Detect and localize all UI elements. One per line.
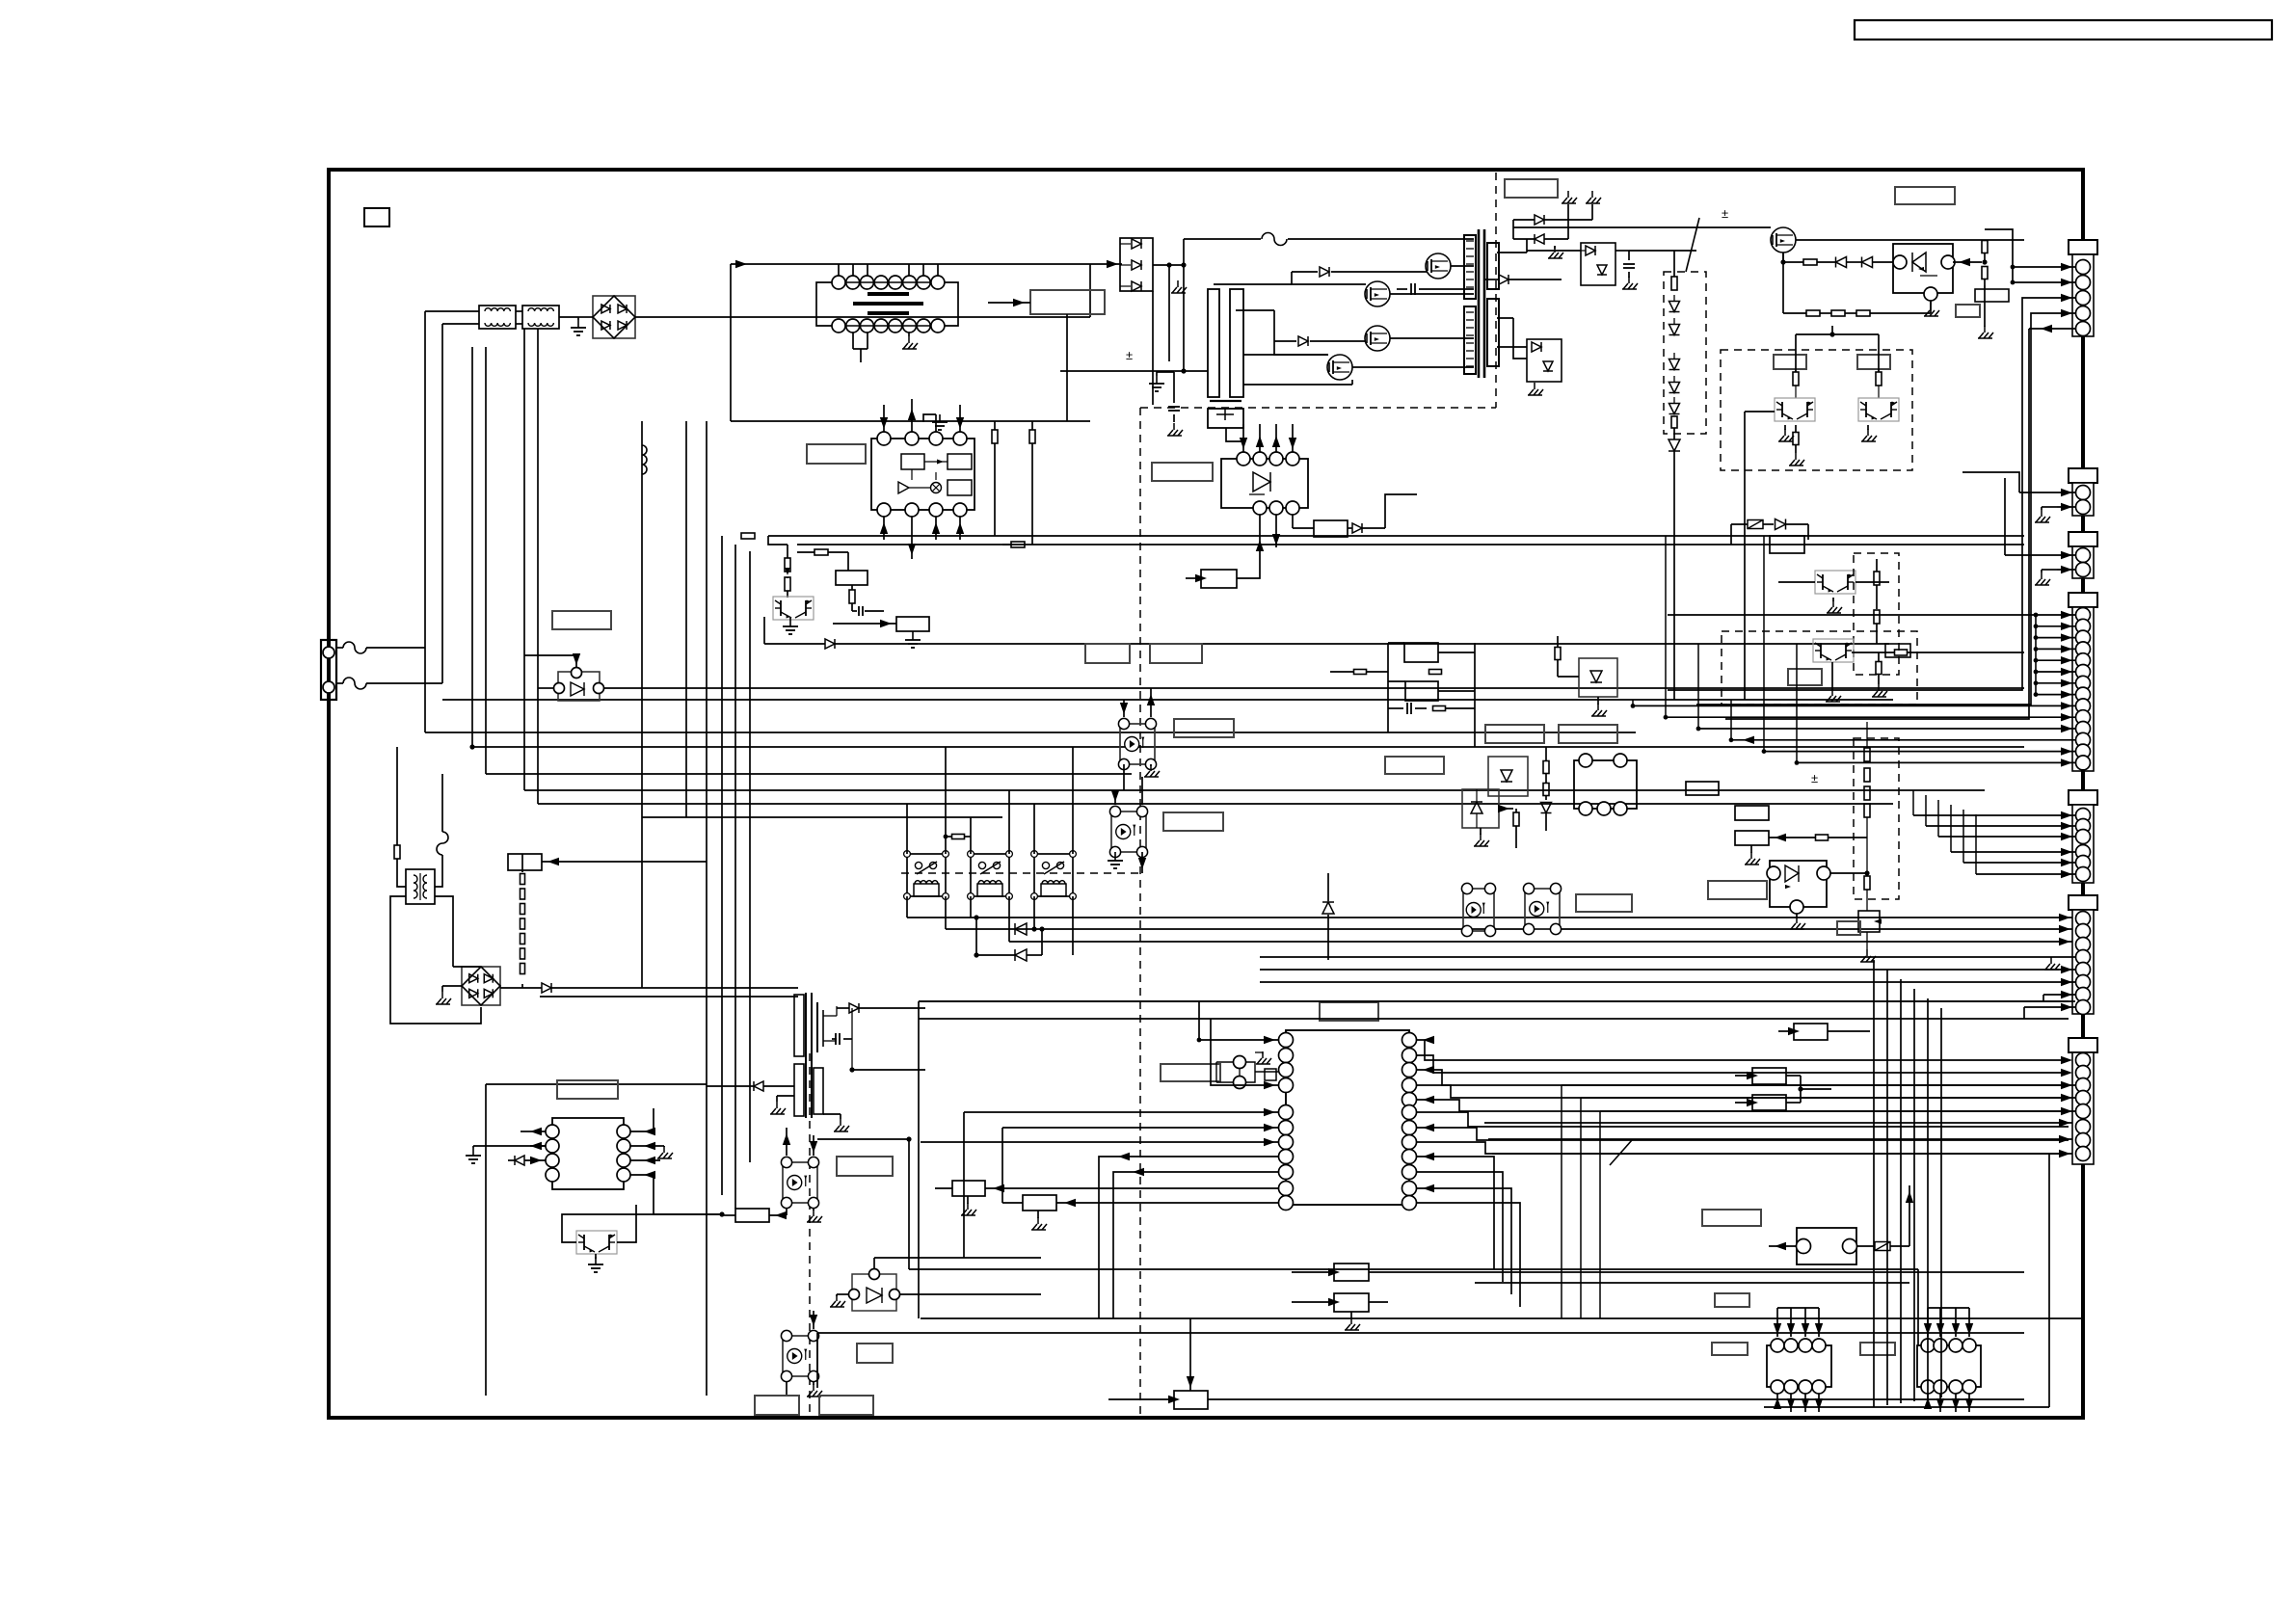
resistor R213	[1543, 761, 1549, 774]
fuse F1003	[1184, 238, 1261, 240]
capacitor C1005	[858, 606, 860, 616]
pot VR201	[1858, 911, 1880, 932]
IC IC1001 (photocoupler)	[1221, 459, 1308, 508]
transformer T1004 (gate drive)	[1208, 289, 1219, 397]
ground	[840, 1119, 841, 1126]
wire	[1513, 318, 1527, 359]
ground	[1114, 853, 1116, 861]
IC RMT602	[1917, 1345, 1981, 1387]
photocoupler PC201	[1463, 889, 1494, 931]
wire	[918, 1001, 920, 1318]
wire	[1260, 956, 2075, 958]
resistor R216	[1874, 572, 1880, 585]
diode D1007	[1535, 215, 1544, 225]
zener box D103	[1462, 789, 1499, 828]
wire	[425, 310, 479, 312]
wire	[813, 1311, 814, 1329]
diode D1008	[1535, 234, 1544, 244]
wire	[1259, 515, 1261, 564]
connector CN607	[2069, 1038, 2097, 1052]
ground	[908, 336, 910, 343]
ground	[1480, 834, 1482, 840]
wire	[852, 333, 854, 349]
wire	[1211, 1019, 1278, 1085]
label box	[807, 444, 866, 464]
wire	[1629, 226, 1771, 228]
jumper slash	[1686, 218, 1699, 272]
diode D1017	[754, 1081, 763, 1091]
diode D622	[1015, 949, 1027, 961]
ground	[1177, 280, 1179, 287]
label box	[1320, 1002, 1378, 1021]
resistor R1013	[785, 558, 790, 572]
transistor Q1001 (MOSFET)	[1426, 253, 1451, 279]
ground	[1930, 304, 1932, 310]
diode D204	[1862, 257, 1873, 268]
ground	[776, 1102, 778, 1108]
resistor ladder (dashed)	[1854, 738, 1899, 899]
wire	[1451, 265, 1474, 267]
box	[1314, 520, 1348, 537]
label box	[1385, 757, 1444, 774]
isolation boundary (dashed)	[1139, 408, 1141, 1415]
ground	[1554, 246, 1556, 253]
wire	[2024, 1006, 2075, 1008]
wire	[635, 316, 1090, 318]
bridge rectifier D1001	[593, 296, 635, 338]
resistor row R205	[1831, 310, 1845, 316]
ground	[663, 1146, 665, 1153]
box	[1752, 1068, 1786, 1084]
diode D206	[1669, 439, 1680, 451]
wire	[1242, 424, 1244, 452]
wire	[970, 896, 972, 918]
zener box D210	[1579, 658, 1617, 697]
wire	[1123, 700, 1125, 717]
wire	[988, 302, 1030, 304]
label box	[1788, 669, 1822, 685]
dashed box	[1854, 553, 1899, 675]
photocoupler PC102	[1111, 811, 1146, 852]
wire	[1292, 424, 1294, 452]
wire	[900, 1293, 1041, 1295]
diode D104	[1322, 902, 1334, 914]
relay RY603	[1034, 854, 1073, 896]
ground	[1597, 704, 1599, 710]
thyristor D620	[852, 1274, 896, 1311]
wire	[1484, 1122, 2076, 1124]
resistor R1012	[1011, 542, 1025, 547]
resistor R203	[1982, 267, 1988, 279]
drawing frame	[329, 170, 2083, 1418]
transistor Q1006 (MOSFET sw)	[816, 1002, 818, 1052]
isolation boundary (dashed)	[901, 872, 1140, 874]
wire	[852, 1069, 925, 1071]
wire	[1745, 411, 1775, 412]
ground	[1866, 949, 1868, 956]
label box	[1161, 1064, 1220, 1081]
resistor R103	[1433, 706, 1446, 711]
box	[1201, 570, 1237, 588]
resistor R211	[1876, 662, 1882, 675]
wire	[1913, 814, 2075, 816]
ground	[1784, 429, 1786, 436]
rectifier block D1002-D1004	[1120, 238, 1153, 291]
label box	[1505, 179, 1558, 198]
IC IC1002 (PWM controller)	[871, 439, 974, 510]
box	[508, 854, 542, 870]
box	[1770, 536, 1804, 553]
ground	[789, 619, 791, 626]
isolation boundary (dashed)	[1140, 407, 1496, 409]
resistor R212	[1895, 650, 1908, 655]
wire	[1243, 354, 1328, 356]
label box	[755, 1396, 799, 1415]
triac RY1001	[558, 672, 600, 701]
wire	[1764, 1406, 2049, 1408]
box	[1752, 1095, 1786, 1110]
wire	[1873, 960, 1875, 1407]
wire	[768, 536, 788, 545]
ground	[2041, 572, 2042, 579]
label box	[1485, 725, 1544, 743]
resistor row R204	[1806, 310, 1820, 316]
wire	[964, 1111, 1279, 1113]
transistor Q607 (pair)	[576, 1231, 617, 1254]
wire	[906, 896, 908, 918]
transistor Q203 (pair)	[1858, 398, 1899, 421]
diode D1005	[1292, 271, 1318, 273]
label box	[1174, 719, 1234, 737]
resistor R1014	[785, 577, 790, 591]
wire	[1226, 428, 1243, 441]
diode D1011	[1499, 275, 1508, 284]
label box	[1702, 1210, 1761, 1226]
fuse F1004	[437, 832, 448, 855]
resistor R202	[1982, 241, 1988, 253]
ground	[2041, 510, 2042, 517]
motor M601	[1797, 1228, 1856, 1264]
wire	[486, 773, 1132, 775]
wire	[540, 996, 798, 998]
wire	[1830, 872, 1867, 874]
label box	[1150, 644, 1202, 663]
ground	[1628, 277, 1630, 283]
ground	[1156, 376, 1158, 384]
resistor R101	[1354, 670, 1367, 675]
wire	[817, 1332, 2024, 1334]
wire	[1790, 1394, 1792, 1412]
wire	[1512, 220, 1514, 239]
wire	[883, 517, 885, 540]
box	[1885, 644, 1910, 657]
line filter L1002b	[522, 306, 559, 329]
diode D1016	[849, 1003, 859, 1013]
ground	[1867, 429, 1869, 436]
label box	[1715, 1293, 1749, 1307]
resistor chain R1021-R1027	[521, 874, 525, 885]
label box	[1712, 1343, 1748, 1355]
wire	[599, 1213, 722, 1215]
wire	[1563, 250, 1581, 252]
diode D1015	[542, 983, 551, 993]
wire	[919, 1000, 2075, 1002]
box	[896, 617, 929, 631]
ground	[1173, 423, 1175, 430]
wire	[786, 1128, 788, 1156]
resistor R1005	[1292, 515, 1294, 528]
transistor Q202 (pair)	[1775, 398, 1815, 421]
ground	[1037, 1217, 1039, 1224]
choke transformer L1001	[832, 276, 845, 289]
sheet label box	[364, 208, 389, 226]
ground	[813, 1210, 814, 1216]
wire	[963, 1112, 965, 1258]
box	[952, 1181, 985, 1196]
diode D621	[1015, 923, 1027, 935]
snubber box D1010	[1527, 339, 1562, 382]
wire	[1499, 808, 1513, 810]
photocoupler PC202	[1525, 889, 1560, 929]
relay RY602	[971, 854, 1009, 896]
transformer T1003 (flyback)	[805, 993, 807, 1118]
diode D203	[1836, 257, 1847, 268]
resistor R104	[1513, 812, 1519, 826]
wire	[2005, 554, 2075, 556]
wire	[1189, 1364, 1191, 1391]
isolation boundary (dashed)	[1495, 173, 1497, 408]
transistor Q1002 (MOSFET)	[1365, 281, 1390, 306]
ground	[1878, 684, 1880, 691]
wire	[642, 816, 1002, 818]
wire	[1488, 1138, 2076, 1140]
wire	[945, 896, 947, 929]
ground	[813, 1384, 814, 1391]
resistor R1010	[992, 430, 998, 443]
transistor Q205 (pair)	[1813, 639, 1854, 662]
wire	[1255, 1071, 1278, 1073]
wire	[797, 544, 2024, 545]
wire	[538, 687, 553, 689]
label box	[1895, 187, 1955, 204]
wire	[538, 803, 1893, 805]
wire	[397, 870, 406, 887]
wire	[641, 421, 643, 988]
resistor R620	[952, 835, 965, 839]
wire	[919, 1000, 2069, 1002]
label box	[1163, 812, 1223, 831]
box	[1735, 806, 1769, 820]
ground	[472, 1148, 474, 1156]
wire	[1782, 253, 1784, 313]
resistor R217	[1874, 610, 1880, 624]
label box	[1085, 644, 1130, 663]
box	[1975, 289, 2009, 302]
box	[1686, 782, 1719, 795]
box	[1334, 1293, 1369, 1312]
ground	[967, 1203, 969, 1210]
wire	[1060, 370, 1208, 372]
ground	[836, 1294, 838, 1301]
connector CN605	[2069, 790, 2097, 805]
wire	[1033, 896, 1035, 929]
diode D618	[515, 1156, 524, 1165]
shunt reg IC203	[1770, 861, 1827, 907]
transistor Q201 (MOSFET)	[1771, 227, 1796, 253]
wire	[1417, 1040, 2069, 1060]
transistor Q1004 (MOSFET)	[1327, 355, 1352, 380]
wire	[453, 966, 481, 968]
resistor R1020	[394, 845, 400, 859]
wire arrows	[630, 1131, 654, 1132]
wire	[1801, 1088, 1831, 1090]
resistor R214	[1543, 784, 1549, 796]
wire arrows	[530, 1128, 542, 1135]
crossed box F601	[1875, 1242, 1890, 1251]
wire	[424, 311, 426, 648]
regulator IC202	[1574, 760, 1637, 809]
connector CN603	[2069, 532, 2097, 546]
capacitor C101	[1406, 703, 1408, 714]
wire	[390, 896, 481, 1024]
ground	[1795, 453, 1797, 460]
crossed box F201	[1748, 520, 1763, 529]
svg-text:±: ±	[1126, 348, 1133, 362]
wire	[2036, 614, 2075, 616]
wire	[833, 623, 896, 625]
resistor R207	[1793, 433, 1799, 445]
wire	[921, 1317, 2082, 1319]
transistor Q1005 (pair)	[773, 597, 814, 620]
audio block (dashed)	[1721, 350, 1912, 470]
IC D202 (shunt reg)	[1893, 244, 1953, 293]
wire	[1387, 643, 1389, 732]
ground	[923, 414, 936, 422]
wire	[730, 264, 732, 421]
wire	[909, 1268, 1918, 1270]
photocoupler PC601	[783, 1162, 817, 1203]
resistor R1016	[849, 590, 855, 603]
resistor R210	[1555, 648, 1561, 660]
resistor R1011	[1029, 430, 1035, 443]
wire	[1633, 705, 2075, 706]
wire	[442, 699, 1893, 701]
label box	[1559, 725, 1617, 743]
ground	[1796, 917, 1798, 923]
transistor Q204 (pair)	[1815, 571, 1855, 594]
wire	[1237, 564, 1260, 578]
photocoupler PC602	[783, 1336, 817, 1376]
ground	[1832, 600, 1834, 607]
diode D205b	[1775, 519, 1786, 530]
ground	[2050, 957, 2052, 964]
isolation boundary (dashed)	[809, 1053, 811, 1415]
wire	[1214, 283, 1292, 285]
diode D1006	[1274, 340, 1296, 342]
label box	[837, 1157, 893, 1176]
wire	[604, 687, 2024, 689]
ground	[1567, 191, 1569, 198]
label box	[552, 611, 611, 629]
IC IC601 (regulator)	[552, 1118, 624, 1189]
fuse F1002	[336, 682, 343, 684]
svg-text:±: ±	[1811, 771, 1818, 785]
transformer T1001	[1478, 229, 1481, 378]
capacitor C1002	[1623, 263, 1635, 265]
wire	[653, 1108, 654, 1131]
svg-text:±: ±	[1722, 206, 1728, 221]
wire	[768, 535, 2024, 537]
box	[1174, 1391, 1208, 1409]
wire	[524, 789, 1985, 791]
wire	[838, 264, 840, 276]
label box	[1837, 921, 1860, 935]
ground	[595, 1257, 597, 1264]
label box	[1152, 463, 1213, 481]
connector CN601	[2069, 240, 2097, 254]
connector CN602	[2069, 468, 2097, 483]
wire	[883, 405, 885, 432]
ground	[1350, 1317, 1352, 1324]
label box	[1576, 894, 1632, 912]
wire	[1562, 1084, 2075, 1086]
wire	[1492, 1153, 2076, 1155]
resistor box R619	[735, 1209, 769, 1222]
diode D1012	[1352, 523, 1362, 533]
wire	[908, 264, 910, 276]
box	[1405, 681, 1438, 701]
diode D212	[1541, 803, 1552, 813]
ground	[1984, 326, 1986, 333]
wire	[1769, 1245, 1797, 1247]
wire	[1855, 581, 1889, 583]
resistor R215	[1816, 835, 1829, 840]
box	[1023, 1195, 1056, 1211]
label box	[557, 1080, 618, 1099]
bridge rectifier D1014	[462, 967, 500, 1005]
wire	[959, 405, 961, 432]
wire	[1985, 229, 2013, 282]
wire	[1123, 764, 1125, 790]
inductor L1003	[642, 445, 647, 474]
fuse F1001	[336, 647, 343, 649]
wire	[1615, 250, 1629, 252]
capacitor C1003	[1168, 406, 1180, 408]
box	[1735, 831, 1769, 845]
wire	[906, 804, 908, 854]
resistor R102	[1429, 670, 1442, 675]
transistor Q1003 (MOSFET)	[1365, 326, 1390, 351]
resistor R1015	[814, 549, 828, 555]
wire	[1796, 239, 2024, 241]
ground	[1831, 689, 1833, 696]
resistor row R206	[1856, 310, 1870, 316]
label box	[819, 1396, 873, 1415]
connector CN604	[2069, 593, 2097, 607]
wire	[1776, 1308, 1778, 1337]
box	[1404, 643, 1438, 662]
ground	[577, 320, 579, 328]
resistor R1017	[741, 533, 755, 539]
wire	[1731, 523, 1748, 525]
wire	[1795, 334, 1797, 372]
ground	[1262, 1051, 1264, 1058]
wire	[559, 316, 578, 318]
box	[1794, 1024, 1828, 1040]
transformer T1002 (standby)	[406, 869, 435, 904]
snubber box D1009	[1581, 243, 1615, 285]
box	[1334, 1264, 1369, 1281]
